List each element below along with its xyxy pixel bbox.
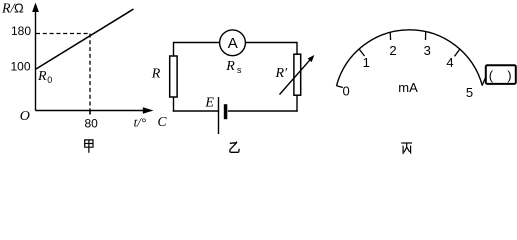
svg-text:C: C [158,114,168,129]
svg-text:0: 0 [342,84,349,99]
tick 0 [337,86,343,88]
svg-text:R: R [37,69,47,84]
svg-text:t/°: t/° [134,115,146,130]
tick/leader at 5 [482,69,490,86]
left wire [173,42,175,57]
dashed line horizontal 180 [36,33,90,35]
svg-text:4: 4 [446,55,453,70]
svg-text:): ) [507,68,511,83]
rheostat arrow [280,59,311,94]
right wire [296,42,298,55]
svg-text:0: 0 [47,75,52,85]
svg-text:(: ( [489,68,494,83]
svg-text:1: 1 [363,55,370,70]
svg-text:Ω: Ω [14,0,24,15]
bottom wire right [228,110,298,112]
svg-text:2: 2 [389,43,396,58]
tick 2 [389,32,391,40]
svg-text:R: R [151,67,161,82]
resistor R [170,56,177,97]
R vs t line [36,9,134,69]
svg-text:mA: mA [398,80,418,95]
svg-text:3: 3 [424,43,431,58]
svg-text:E: E [204,96,214,111]
tick at 80 [89,110,91,115]
label 甲 [85,140,93,153]
svg-text:O: O [20,109,30,124]
label 乙 [230,142,239,153]
svg-text:R: R [225,59,235,74]
tick 1 [359,49,365,56]
svg-text:100: 100 [11,59,31,73]
tick 3 [425,32,427,41]
battery short plate [224,104,228,119]
svg-text:5: 5 [466,85,473,100]
rheostat R' [294,54,301,95]
svg-text:A: A [228,35,238,52]
y-axis [35,8,37,111]
svg-text:R′: R′ [275,66,289,81]
dashed line vertical 80 [89,34,91,111]
svg-text:s: s [237,65,242,75]
bottom wire left [173,110,218,112]
top wire right [246,42,297,44]
scale arc [337,30,483,86]
blank box [486,65,516,84]
svg-text:80: 80 [85,117,99,131]
ammeter A [220,30,246,56]
x-axis [36,110,147,112]
svg-text:180: 180 [11,24,31,38]
label 丙 [401,143,412,154]
battery long plate [218,97,220,134]
tick 4 [455,49,461,56]
top wire left [174,42,220,44]
